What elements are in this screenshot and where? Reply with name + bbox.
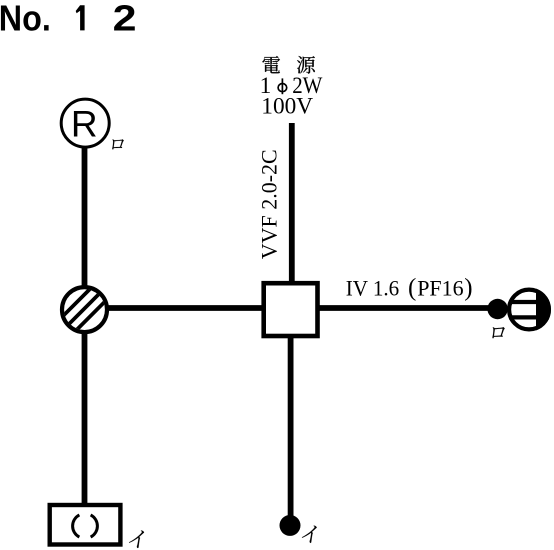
svg-text:IV 1.6: IV 1.6 bbox=[346, 275, 400, 300]
svg-text:2: 2 bbox=[113, 0, 137, 39]
wire: power feed vertical bbox=[289, 123, 295, 285]
svg-text:VVF 2.0-2C: VVF 2.0-2C bbox=[257, 149, 282, 259]
wall outlet (circle with half-black wall side) bbox=[509, 289, 551, 331]
switch ロ (filled circle) bbox=[487, 299, 507, 319]
power source label 電源 1φ2W 100V bbox=[262, 56, 280, 73]
VVF joint box (hatched circle) bbox=[39, 280, 127, 340]
svg-text:R: R bbox=[71, 104, 98, 145]
wire: outlet box right to switch ロ bbox=[318, 305, 491, 311]
label ロ (right switch) bbox=[491, 327, 505, 338]
ceiling light 角型引掛シーリング イ bbox=[50, 505, 121, 545]
lamp receptacle R bbox=[61, 99, 109, 147]
wire: joint box down to ceiling light bbox=[82, 331, 88, 505]
switch イ (filled circle) bbox=[280, 515, 301, 536]
svg-text:PF16: PF16 bbox=[417, 275, 463, 300]
svg-text:No.: No. bbox=[0, 0, 51, 38]
phi symbol bbox=[278, 78, 287, 94]
label イ (bottom switch) bbox=[301, 526, 317, 543]
wire: joint box up to lamp receptacle R bbox=[82, 147, 88, 288]
svg-text:): ) bbox=[464, 274, 472, 301]
svg-text:(: ( bbox=[408, 274, 416, 301]
label イ (ceiling light) bbox=[128, 530, 144, 548]
svg-text:100V: 100V bbox=[261, 93, 313, 119]
wire: outlet box down to switch イ bbox=[288, 336, 294, 516]
outlet box (square) bbox=[264, 283, 318, 336]
label ロ (lamp receptacle) bbox=[111, 139, 124, 149]
title digit 1 bbox=[76, 5, 85, 30]
wire: joint box to outlet box bbox=[106, 305, 264, 311]
